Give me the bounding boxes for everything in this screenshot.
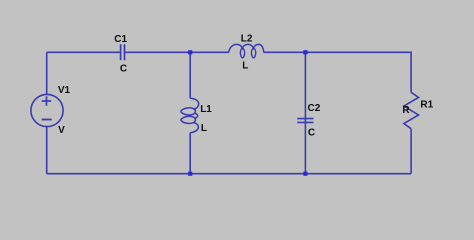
wire L1 column top (top junction to L1) bbox=[189, 52, 191, 98]
svg-text:C2: C2 bbox=[308, 103, 321, 114]
node junction top-right (L2/C2/R1 net) bbox=[303, 50, 307, 54]
node junction top-left (C1/L1/L2 net) bbox=[188, 50, 192, 54]
wire C2 column (top junction through C2 to bottom junction) bbox=[304, 52, 306, 173]
capacitor C1 bbox=[121, 44, 125, 60]
V1 plus sign bbox=[42, 96, 51, 105]
svg-text:L: L bbox=[242, 61, 248, 72]
wire L1 column bottom (L1 to bottom junction) bbox=[189, 133, 191, 174]
svg-text:V: V bbox=[58, 125, 65, 136]
wire left rail top (corner down to V1 circle) bbox=[46, 52, 48, 94]
svg-text:V1: V1 bbox=[58, 85, 71, 96]
svg-text:L1: L1 bbox=[200, 104, 212, 115]
inductor L1 bbox=[181, 98, 199, 132]
wire top rail left segment (V1 top to C1 left plate) bbox=[47, 51, 120, 53]
svg-text:L: L bbox=[201, 123, 207, 134]
capacitor C2 bbox=[297, 119, 313, 123]
svg-text:C: C bbox=[308, 127, 315, 138]
resistor R1 bbox=[404, 92, 419, 128]
voltage source V1 bbox=[31, 94, 63, 126]
wire top rail middle segment (C1 right plate to L2) bbox=[125, 51, 229, 53]
svg-text:R1: R1 bbox=[420, 100, 433, 111]
node junction bottom-right (ground net at C2) bbox=[303, 172, 307, 176]
wire left rail bottom (V1 circle to bottom rail) bbox=[46, 127, 48, 174]
inductor L2 bbox=[229, 44, 264, 58]
svg-text:C: C bbox=[120, 64, 127, 75]
V1 minus sign bbox=[42, 119, 52, 121]
svg-text:L2: L2 bbox=[241, 33, 253, 44]
svg-text:C1: C1 bbox=[114, 34, 127, 45]
wire top rail right segment (L2 to top-right corner) and right rail down to R1 bbox=[264, 52, 411, 92]
svg-text:R: R bbox=[402, 105, 410, 116]
wire right rail bottom (R1 to bottom-right corner) bbox=[410, 129, 412, 174]
node junction bottom-left (ground net at L1) bbox=[188, 172, 192, 176]
wire bottom rail bbox=[47, 173, 411, 175]
